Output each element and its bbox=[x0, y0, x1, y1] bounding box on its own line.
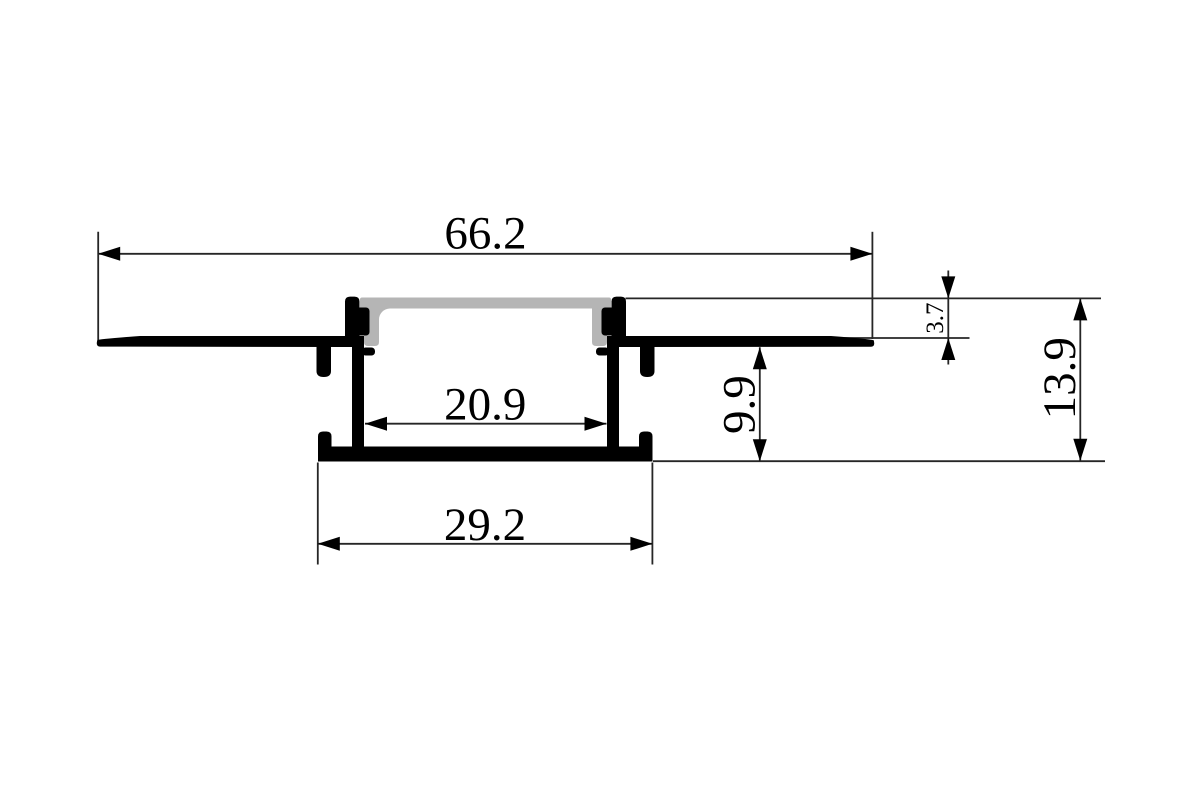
arrowhead 20.9 left bbox=[365, 417, 387, 431]
diffuser right inner fillet bbox=[596, 308, 607, 320]
left inner nub bbox=[362, 348, 375, 356]
arrowhead 9.9 bottom bbox=[753, 439, 767, 461]
svg-text:29.2: 29.2 bbox=[444, 499, 526, 551]
svg-text:13.9: 13.9 bbox=[1034, 337, 1086, 419]
extension line right of 29.2 bbox=[651, 463, 653, 565]
svg-text:20.9: 20.9 bbox=[444, 379, 526, 431]
right hanging tab bbox=[640, 340, 655, 377]
arrowhead 29.2 right bbox=[630, 537, 652, 551]
svg-text:3.7: 3.7 bbox=[922, 302, 949, 333]
extension line flange top level (3.7 bottom) bbox=[830, 337, 970, 339]
dimension line 3.7 bbox=[947, 271, 949, 365]
extension line bottom right (base bottom level) bbox=[653, 460, 1105, 462]
dimension line 13.9 bbox=[1079, 298, 1081, 460]
arrowhead 29.2 left bbox=[318, 537, 340, 551]
right wall top lump bbox=[612, 297, 627, 347]
arrowhead 20.9 right bbox=[585, 417, 607, 431]
extension line left of 66.2 bbox=[97, 232, 99, 340]
arrowhead 13.9 top bbox=[1073, 298, 1087, 320]
left flange (tapered wing) bbox=[97, 336, 345, 347]
extension line right of 66.2 bbox=[871, 232, 873, 339]
diffuser top plate bbox=[360, 298, 611, 309]
svg-text:9.9: 9.9 bbox=[714, 375, 766, 434]
extension line left of 29.2 bbox=[317, 463, 319, 565]
arrowhead 3.7 bottom (outside, pointing up) bbox=[941, 338, 955, 360]
dimension line 9.9 bbox=[759, 347, 761, 461]
arrowhead 9.9 top bbox=[753, 347, 767, 369]
diffuser right leg bbox=[592, 300, 607, 346]
left wall top lump bbox=[345, 297, 360, 347]
profile (black aluminium body) bbox=[97, 297, 874, 462]
diffuser left leg bbox=[364, 300, 379, 346]
base plate bbox=[318, 447, 653, 462]
left hanging tab bbox=[317, 340, 332, 377]
base right up-tab bbox=[639, 432, 653, 456]
arrowhead 3.7 top (outside, pointing down) bbox=[941, 276, 955, 298]
arrowhead 13.9 bottom bbox=[1073, 439, 1087, 461]
diffuser (gray) bbox=[360, 298, 611, 347]
diffuser left inner fillet bbox=[379, 308, 390, 320]
left inner bump bbox=[356, 308, 370, 336]
dimension line 20.9 bbox=[365, 423, 607, 425]
left lower wall bbox=[352, 336, 364, 450]
dimension line 29.2 bbox=[318, 543, 653, 545]
dimension texts bbox=[444, 207, 1086, 551]
arrowhead 66.2 right bbox=[850, 247, 872, 261]
right flange (tapered wing) bbox=[626, 336, 874, 347]
right lower wall bbox=[607, 336, 619, 450]
svg-text:66.2: 66.2 bbox=[444, 207, 526, 259]
base left up-tab bbox=[318, 432, 332, 456]
dimension line 66.2 bbox=[98, 253, 872, 255]
extension line top right (profile top level) bbox=[626, 297, 1102, 299]
arrowhead 66.2 left bbox=[98, 247, 120, 261]
right inner nub bbox=[596, 348, 609, 356]
right inner bump bbox=[602, 308, 616, 336]
